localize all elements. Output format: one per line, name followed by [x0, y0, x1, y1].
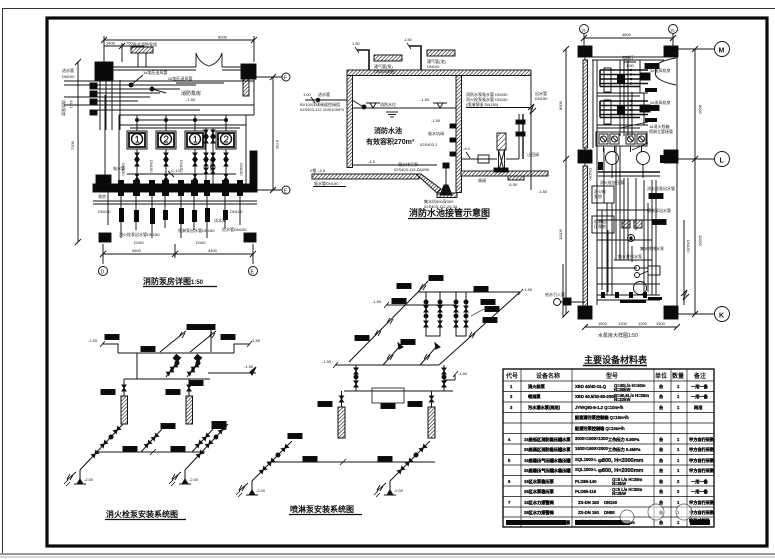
pump unit 3	[185, 131, 205, 149]
wall strip right	[243, 79, 249, 96]
svg-text:-1.50: -1.50	[372, 299, 382, 304]
column TR	[241, 64, 256, 79]
svg-text:1.50: 1.50	[404, 37, 413, 42]
svg-text:DN150: DN150	[149, 160, 154, 173]
drop left with valves	[355, 365, 357, 391]
svg-text:试水阀: 试水阀	[214, 217, 226, 223]
room box 2	[592, 216, 614, 233]
small fittings row bottom	[601, 292, 647, 298]
grid line E	[257, 189, 282, 191]
svg-text:φ800, H=2000mm: φ800, H=2000mm	[598, 468, 643, 474]
leader diagonals	[632, 143, 648, 150]
table body small text	[506, 383, 714, 526]
svg-text:ZS-DN 150: ZS-DN 150	[578, 510, 600, 515]
piping lower	[606, 203, 608, 295]
float valve	[352, 100, 362, 106]
mid columns	[578, 150, 592, 163]
wall top line	[95, 66, 196, 68]
svg-text:N=30kW: N=30kW	[614, 387, 630, 392]
sub header	[344, 390, 453, 392]
svg-text:-1.50: -1.50	[88, 338, 98, 343]
svg-text:1#加压送风管: 1#加压送风管	[143, 69, 167, 75]
right takeoff elbow	[234, 344, 250, 353]
suction diagonal 1	[80, 424, 123, 470]
svg-text:DN100: DN100	[62, 74, 75, 79]
svg-text:15: 15	[581, 28, 586, 33]
grid bubble 15	[580, 25, 589, 34]
main wall band	[93, 184, 257, 192]
outer thin border	[2, 8, 4, 553]
second header	[386, 304, 456, 306]
svg-text:D150: D150	[196, 240, 206, 245]
wet alarm valve labels	[481, 300, 495, 305]
svg-text:-1.50: -1.50	[431, 118, 441, 123]
svg-text:1500: 1500	[598, 321, 608, 326]
svg-text:1.50: 1.50	[626, 63, 635, 68]
suction diagonal E2	[390, 441, 430, 481]
pump unit 4	[216, 131, 236, 149]
svg-text:DN150: DN150	[588, 168, 593, 181]
svg-text:F: F	[284, 76, 287, 82]
bottom columns	[578, 306, 592, 319]
watermark circles	[620, 504, 692, 524]
svg-text:4400: 4400	[208, 248, 218, 253]
svg-text:消火栓泵出水管DN150: 消火栓泵出水管DN150	[119, 231, 160, 237]
svg-text:泄水管DN100: 泄水管DN100	[222, 226, 247, 232]
suction fittings on mid wall	[450, 124, 456, 128]
svg-text:1500: 1500	[656, 321, 666, 326]
svg-text:卧式消防泵组: 卧式消防泵组	[133, 41, 157, 47]
grid line M	[678, 48, 714, 50]
svg-text:进水管: 进水管	[318, 91, 330, 97]
right dim line	[272, 77, 274, 190]
svg-text:-1.50: -1.50	[186, 97, 196, 102]
svg-text:台: 台	[659, 457, 663, 464]
svg-text:DN100: DN100	[230, 209, 243, 214]
right side pipe with break	[683, 220, 685, 305]
column TL	[95, 62, 113, 80]
alarm valve loop 2	[456, 292, 466, 336]
svg-text:-1.50: -1.50	[420, 97, 430, 102]
pumps	[606, 152, 619, 165]
right dim chain	[694, 49, 696, 314]
svg-text:DN100: DN100	[427, 64, 440, 69]
svg-text:甲方自行采购: 甲方自行采购	[689, 499, 714, 506]
pedestal hatch right	[508, 176, 524, 180]
svg-text:台: 台	[659, 478, 663, 485]
svg-text:DN150: DN150	[239, 163, 244, 176]
svg-text:1400: 1400	[106, 41, 116, 46]
dim line top	[104, 39, 254, 41]
svg-text:DN100(2根): DN100(2根)	[374, 68, 396, 74]
svg-text:台: 台	[659, 519, 663, 526]
svg-text:16区水泵稳压泵: 16区水泵稳压泵	[524, 478, 555, 485]
figure B: fire water tank section	[300, 37, 548, 219]
small pump circles	[635, 266, 640, 271]
branch arrows on lower header	[383, 345, 401, 365]
suction diagonal 2	[185, 424, 228, 470]
second band line	[93, 200, 257, 202]
tank middle wall	[456, 76, 462, 193]
svg-text:一用一备: 一用一备	[691, 478, 709, 485]
svg-text:-2.00: -2.00	[394, 488, 404, 493]
left bubble bottom	[554, 299, 561, 306]
svg-text:有效容积270m³: 有效容积270m³	[366, 137, 415, 146]
pump 2	[169, 470, 191, 486]
valve stacks below pumps	[135, 149, 139, 184]
sump pump	[440, 185, 452, 195]
svg-text:-1.50: -1.50	[251, 338, 261, 343]
valve cluster diagonal 2	[187, 357, 202, 377]
dim line second	[104, 45, 144, 47]
svg-text:-1.50: -1.50	[523, 287, 533, 292]
svg-text:8000: 8000	[218, 35, 228, 40]
drops below band	[108, 192, 240, 238]
bottom dim line	[103, 253, 253, 255]
figure E: sprinkler pump installation isometric	[236, 276, 533, 515]
riser arrows to roof tank	[160, 331, 186, 352]
bottom gray strip	[0, 553, 775, 555]
table grid	[503, 369, 714, 527]
pump unit 1	[127, 131, 147, 149]
svg-text:8000: 8000	[558, 100, 563, 110]
svg-text:DN150: DN150	[535, 96, 548, 101]
svg-text:M: M	[719, 48, 725, 55]
pump E1	[236, 481, 258, 497]
right pier	[250, 151, 257, 184]
mid header	[124, 378, 210, 380]
svg-text:26层高区消防稳压罐水泵: 26层高区消防稳压罐水泵	[524, 446, 571, 453]
pump room floor right	[461, 171, 548, 176]
svg-text:16区水力报警阀: 16区水力报警阀	[524, 499, 554, 506]
tank left wall	[347, 76, 353, 168]
svg-text:台: 台	[659, 404, 663, 411]
svg-text:台: 台	[659, 393, 663, 400]
svg-text:1600×1600×2000: 1600×1600×2000	[575, 446, 609, 451]
svg-text:一用一备: 一用一备	[691, 488, 709, 495]
svg-text:02S403-1: 02S403-1	[420, 142, 438, 147]
riser to upper floors	[210, 330, 212, 352]
left long diagonal	[349, 292, 418, 362]
svg-text:止回阀: 止回阀	[527, 151, 539, 157]
left wall small squares	[90, 83, 97, 89]
drop 1	[136, 353, 138, 379]
svg-text:2#加压送风管: 2#加压送风管	[168, 75, 192, 81]
column C-TR	[664, 46, 678, 57]
svg-text:吸水管DN150: 吸水管DN150	[314, 180, 339, 186]
svg-text:消防水池: 消防水池	[374, 126, 402, 135]
svg-text:JYWQ50-9-1.2 Q=10m³/h: JYWQ50-9-1.2 Q=10m³/h	[575, 405, 624, 410]
svg-text:SQL1000-L: SQL1000-L	[575, 467, 597, 472]
svg-text:N=3kW: N=3kW	[612, 481, 626, 486]
svg-text:数量: 数量	[672, 372, 684, 380]
header pipe	[127, 173, 236, 175]
svg-text:泵房: 泵房	[98, 193, 106, 199]
svg-text:26层稳压气压罐水稳压罐: 26层稳压气压罐水稳压罐	[524, 467, 571, 474]
svg-text:SQL1000-L: SQL1000-L	[575, 457, 597, 462]
svg-text:泵房: 泵房	[594, 193, 602, 199]
svg-text:16层低区消防稳压罐水泵: 16层低区消防稳压罐水泵	[524, 436, 571, 443]
svg-text:D: D	[101, 270, 105, 276]
grid bubbles bottom	[99, 267, 108, 276]
svg-text:闸阀: 闸阀	[478, 177, 486, 183]
svg-text:压泵房: 压泵房	[594, 223, 606, 229]
grid bubble 16	[669, 25, 678, 34]
left dim chain	[565, 49, 567, 314]
bottom header	[97, 451, 205, 453]
scattered labels lower room	[98, 160, 244, 237]
svg-text:L: L	[720, 158, 725, 165]
riser shaft E1	[338, 407, 345, 438]
svg-text:甲方自行采购: 甲方自行采购	[689, 446, 714, 453]
svg-text:-1.50: -1.50	[244, 364, 254, 369]
svg-text:1.50: 1.50	[352, 41, 361, 46]
bottom columns	[99, 233, 111, 242]
right side pipe labels	[588, 168, 675, 259]
svg-text:-4.0: -4.0	[463, 146, 471, 151]
svg-text:XBD 40/40-GLQ: XBD 40/40-GLQ	[575, 384, 607, 389]
door arcs	[196, 53, 222, 67]
riser shaft E2	[428, 407, 435, 438]
svg-text:-2.00: -2.00	[256, 488, 266, 493]
svg-text:N=22kW: N=22kW	[614, 397, 630, 402]
svg-text:16: 16	[670, 28, 675, 33]
svg-text:消火栓泵出水管: 消火栓泵出水管	[647, 185, 675, 191]
svg-text:配套潜污泵控制箱 Q=10m³/h: 配套潜污泵控制箱 Q=10m³/h	[575, 414, 629, 421]
vent pipe 2	[409, 46, 421, 70]
grid line K	[678, 313, 714, 315]
svg-text:11000: 11000	[698, 235, 703, 247]
svg-text:备注: 备注	[693, 372, 706, 380]
left takeoff elbow	[102, 344, 118, 353]
svg-text:XBD 40.5/30-80-200F: XBD 40.5/30-80-200F	[575, 394, 616, 399]
svg-text:N=3kW: N=3kW	[612, 491, 626, 496]
grid line F	[256, 76, 282, 78]
svg-text:主要设备材料表: 主要设备材料表	[584, 354, 648, 365]
svg-text:2#送风机房: 2#送风机房	[650, 99, 670, 105]
svg-text:DN150: DN150	[179, 160, 184, 173]
vent pipe 1	[357, 50, 369, 70]
svg-text:消火栓泵: 消火栓泵	[528, 383, 546, 390]
room inner lines	[104, 95, 106, 184]
junction dots	[129, 83, 133, 87]
svg-text:DN150: DN150	[209, 160, 214, 173]
svg-text:-4.50: -4.50	[508, 182, 518, 187]
svg-text:02S403-112-1D5/105/P4: 02S403-112-1D5/105/P4	[300, 107, 345, 112]
svg-text:-1.50: -1.50	[538, 189, 548, 194]
lower header	[335, 364, 439, 366]
room outline	[584, 57, 586, 308]
tank bottom slab	[312, 174, 419, 179]
svg-text:给水引入管: 给水引入管	[545, 291, 565, 297]
door top right	[655, 58, 676, 85]
hatched label box	[131, 47, 153, 53]
extra valve stacks between pump3/4	[204, 128, 208, 184]
figure A: pump room plan	[61, 25, 730, 528]
svg-text:-1.50: -1.50	[322, 359, 332, 364]
discharge pipe up right of pump	[506, 158, 519, 160]
grid line L	[678, 158, 714, 160]
svg-text:设备名称: 设备名称	[536, 372, 560, 380]
valve box row	[596, 132, 647, 146]
suction pipes above pumps	[136, 115, 138, 131]
column C-TL	[578, 46, 592, 57]
svg-text:喷淋泵出水管: 喷淋泵出水管	[647, 207, 671, 213]
svg-text:台: 台	[659, 436, 663, 443]
svg-text:污水潜水泵(两用): 污水潜水泵(两用)	[528, 404, 561, 411]
svg-text:26区水力报警阀: 26区水力报警阀	[524, 509, 554, 516]
svg-text:ZS-DN 150: ZS-DN 150	[578, 500, 600, 505]
svg-text:喷淋泵出水管DN150: 喷淋泵出水管DN150	[178, 227, 215, 233]
svg-text:K: K	[719, 313, 724, 320]
top header	[418, 291, 520, 293]
svg-text:消防泵房: 消防泵房	[61, 100, 67, 116]
extra center pipes	[615, 146, 617, 260]
svg-text:单位: 单位	[655, 372, 667, 380]
svg-text:进水管: 进水管	[62, 67, 74, 73]
valve cluster diagonal 1	[166, 357, 181, 377]
vertical pipes from column	[99, 80, 101, 130]
svg-text:甲方自行采购: 甲方自行采购	[689, 467, 714, 474]
svg-text:PLD85-140: PLD85-140	[575, 479, 597, 484]
svg-text:吸水坑阀: 吸水坑阀	[428, 130, 444, 136]
svg-text:02S403-112-DN200: 02S403-112-DN200	[394, 167, 430, 172]
svg-text:3600: 3600	[132, 248, 142, 253]
drop right with valves	[443, 365, 445, 391]
svg-text:1.00: 1.00	[303, 92, 312, 97]
big circle sump	[634, 282, 647, 295]
hatched pads	[622, 220, 630, 228]
svg-text:消火栓泵安装系统图: 消火栓泵安装系统图	[106, 509, 178, 519]
left dim line	[77, 62, 79, 242]
svg-text:DN100: DN100	[98, 209, 111, 214]
svg-text:2根 –4.5: 2根 –4.5	[310, 167, 326, 173]
svg-text:台: 台	[659, 467, 663, 474]
right long diagonal	[439, 292, 520, 365]
riser shaft 2	[186, 396, 193, 424]
riser pipes vertical center	[619, 60, 621, 136]
svg-text:吸水管: 吸水管	[113, 165, 125, 171]
figure C: riser plan	[64, 25, 730, 528]
svg-text:4800: 4800	[622, 32, 632, 37]
water level	[352, 107, 456, 109]
svg-text:台: 台	[659, 488, 663, 495]
left pier	[96, 175, 111, 184]
svg-text:电梯厅: 电梯厅	[622, 54, 634, 60]
target circle	[628, 235, 635, 242]
svg-text:消防水池接管示意图: 消防水池接管示意图	[409, 207, 490, 218]
tall right pipe with break	[530, 75, 532, 190]
suction diagonal E1	[252, 441, 292, 481]
svg-text:甲方自行采购: 甲方自行采购	[689, 457, 714, 464]
svg-text:1200: 1200	[638, 321, 648, 326]
svg-text:一用一备: 一用一备	[691, 383, 709, 390]
svg-text:工作压力 0.80Pa: 工作压力 0.80Pa	[608, 436, 640, 443]
pump room pipes right of mid wall	[461, 158, 497, 160]
riser connectors	[341, 391, 343, 407]
svg-text:26区水泵稳压泵: 26区水泵稳压泵	[524, 488, 555, 495]
figure F: equipment material table	[503, 354, 714, 527]
pump unit 2	[156, 131, 176, 149]
svg-text:型号: 型号	[606, 372, 618, 380]
riser connectors	[123, 379, 125, 396]
svg-text:3000×1600×1200: 3000×1600×1200	[575, 436, 609, 441]
svg-text:φ800, H=2000mm: φ800, H=2000mm	[598, 458, 643, 464]
svg-text:-2.00: -2.00	[189, 477, 199, 482]
top dim line	[584, 37, 673, 39]
svg-text:配潜污泵控制箱 Q=10m³/h: 配潜污泵控制箱 Q=10m³/h	[575, 425, 625, 432]
svg-text:16层稳压气压罐水稳压罐: 16层稳压气压罐水稳压罐	[524, 457, 571, 464]
left wall hatch	[583, 60, 588, 148]
discharge manifold below pumps	[611, 165, 613, 178]
svg-text:(喷淋泵吸 DN150): (喷淋泵吸 DN150)	[466, 101, 499, 107]
riser shaft 1	[121, 396, 128, 424]
figure D: hydrant pump installation isometric	[64, 325, 261, 520]
pump E2	[374, 481, 396, 497]
tank top slab	[347, 70, 531, 76]
svg-text:DN150: DN150	[686, 240, 691, 253]
svg-text:甲方自行采购: 甲方自行采购	[689, 436, 714, 443]
svg-text:1200: 1200	[618, 321, 628, 326]
svg-text:7200: 7200	[70, 140, 75, 150]
stub top-left	[418, 281, 428, 292]
svg-text:甲方自行采购: 甲方自行采购	[689, 509, 714, 516]
svg-text:水泵房大样图1:50: 水泵房大样图1:50	[598, 332, 638, 339]
svg-text:8000: 8000	[698, 105, 703, 115]
vertical pump unit	[497, 133, 506, 150]
svg-text:台: 台	[659, 446, 663, 453]
header row	[505, 372, 706, 380]
slope to sump	[416, 174, 441, 193]
svg-text:6700: 6700	[275, 140, 280, 150]
svg-text:工作压力 0.4MPa: 工作压力 0.4MPa	[608, 446, 641, 453]
pipe bundle from left wall	[64, 80, 254, 82]
pipes center vertical run	[619, 146, 621, 260]
svg-text:DN80: DN80	[604, 510, 615, 515]
inlet pipe left	[305, 99, 347, 101]
interior left vertical lines	[592, 60, 594, 148]
sump pit floor	[437, 193, 457, 198]
extra density center	[643, 180, 645, 292]
svg-text:-1.50: -1.50	[458, 371, 468, 376]
svg-text:DN100: DN100	[604, 500, 618, 505]
svg-text:一用一备: 一用一备	[691, 393, 709, 400]
pump room label box	[372, 388, 404, 403]
pump 1	[64, 470, 86, 486]
svg-text:代号: 代号	[505, 372, 518, 380]
comb manifold 2	[600, 101, 648, 118]
alarm valve loop 1	[426, 292, 440, 336]
svg-text:消防泵房: 消防泵房	[181, 90, 201, 97]
svg-text:喷淋泵: 喷淋泵	[528, 393, 541, 400]
bottom dim text	[585, 326, 677, 328]
comb manifold 1	[600, 70, 648, 87]
mid branch diagonals with labels	[141, 429, 162, 452]
suction pipe in tank	[352, 164, 437, 166]
room box 1	[592, 186, 614, 203]
svg-text:-4.5: -4.5	[368, 159, 376, 164]
bottom header E	[267, 461, 435, 463]
riser pipes above	[137, 53, 139, 67]
svg-text:喷淋泵安装系统图: 喷淋泵安装系统图	[290, 504, 354, 514]
svg-text:两用: 两用	[694, 404, 702, 411]
upper header pipe	[118, 352, 234, 354]
right lower stub	[208, 372, 256, 374]
svg-text:台: 台	[659, 383, 663, 390]
pipe nubs on band	[118, 180, 243, 196]
svg-text:11000: 11000	[558, 228, 563, 240]
horizontal connectors	[597, 92, 648, 94]
